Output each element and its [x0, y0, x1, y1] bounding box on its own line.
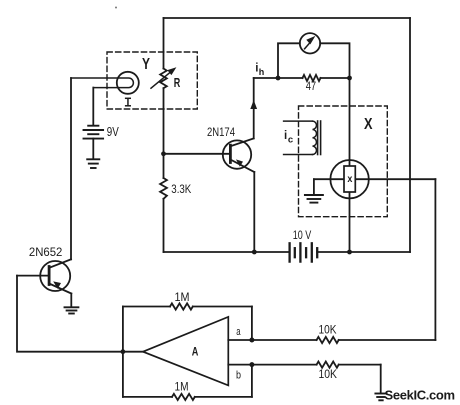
box X (dashed): [299, 106, 388, 217]
battery 10V: [290, 243, 318, 261]
svg-text:X: X: [364, 116, 373, 133]
wire feedback bottom with resistor 1M: [123, 396, 172, 398]
wire emitter down: [253, 172, 255, 252]
wire right outer: [409, 18, 411, 252]
wire 9V to ground: [92, 139, 94, 159]
node emitter-bottom: [252, 250, 257, 255]
wire emitter to ground: [70, 294, 72, 307]
svg-text:c: c: [288, 134, 293, 145]
inductor coil: [313, 121, 317, 154]
resistor R (variable): [160, 69, 167, 89]
wire lamp to 2N652 collector (long left vertical): [70, 78, 72, 259]
ground (b): [375, 394, 386, 401]
wire bottom right vertical to b: [251, 365, 253, 397]
speck: [115, 7, 117, 9]
svg-text:i: i: [284, 130, 287, 142]
svg-text:SeekIC.com: SeekIC.com: [385, 388, 455, 403]
wire base vertical to op-amp input: [17, 276, 143, 352]
svg-text:10 V: 10 V: [293, 228, 312, 242]
svg-text:2N652: 2N652: [29, 245, 63, 259]
x-device circle: [330, 160, 368, 198]
x-device right lead: [355, 178, 435, 180]
svg-text:1M: 1M: [175, 290, 190, 304]
op-amp feedback left vertical: [122, 307, 124, 397]
wire bottom right segment: [317, 251, 410, 253]
svg-text:Y: Y: [142, 56, 151, 73]
box Y (dashed): [107, 52, 197, 109]
svg-text:b: b: [236, 369, 241, 381]
wire bottom left segment: [164, 251, 290, 253]
battery 9V: [84, 126, 104, 139]
wire meter branch left: [278, 43, 300, 78]
node base junction: [161, 151, 166, 156]
node a: [249, 338, 254, 343]
wire left branch upper (top to R): [163, 18, 165, 69]
label I: [125, 98, 131, 106]
svg-text:10K: 10K: [319, 322, 337, 336]
transistor Q2 2N652: [40, 261, 70, 291]
variable-resistor arrow (R): [151, 71, 172, 88]
meter M1: [300, 33, 320, 53]
wire R to base junction: [163, 88, 165, 178]
svg-text:10K: 10K: [319, 367, 338, 381]
wire top right vertical to a: [251, 307, 253, 341]
wire vertical through x-device lower: [349, 192, 351, 252]
node x-bottom junction: [347, 250, 352, 255]
x-device rect: [344, 166, 355, 192]
resistor 47: [303, 75, 321, 81]
ground (2N652): [65, 307, 79, 313]
svg-text:47: 47: [306, 81, 316, 93]
svg-text:9V: 9V: [107, 125, 120, 139]
wire meter branch right: [320, 43, 349, 78]
x-device left lead: [314, 178, 344, 180]
wire feedback top with resistor 1M: [123, 306, 170, 308]
svg-text:R: R: [174, 75, 181, 90]
svg-text:2N174: 2N174: [207, 125, 235, 139]
resistor 1M top: [170, 303, 193, 309]
node 47 right junction: [347, 76, 352, 81]
op-amp A triangle: [143, 317, 228, 386]
lamp I: [117, 72, 139, 94]
inductor core: [317, 121, 319, 155]
ground (9V): [87, 159, 99, 168]
ground (X box): [305, 195, 323, 203]
node ih junction: [276, 76, 281, 81]
transistor Q1 2N174: [223, 140, 251, 168]
arrowhead i_h: [250, 100, 257, 109]
wire base 2N174: [164, 153, 231, 155]
wire 3.3K to bottom: [163, 199, 165, 252]
wire vertical through x-device upper: [349, 78, 351, 166]
wire b to ground: [380, 365, 382, 393]
wire a output: [228, 339, 316, 341]
svg-text:x: x: [347, 174, 352, 185]
wire collector up (i_h): [253, 78, 255, 138]
resistor 3.3K: [160, 178, 167, 199]
node input junction: [121, 349, 126, 354]
svg-text:A: A: [192, 344, 199, 358]
wire top outer: [164, 17, 411, 19]
resistor 1M bottom: [172, 394, 195, 400]
wire base 2N652: [17, 275, 49, 277]
wire b output: [228, 364, 316, 366]
node b: [249, 362, 254, 367]
svg-text:a: a: [236, 326, 241, 338]
wire lamp inner lead down to 9V: [92, 88, 94, 126]
wire ih horizontal with resistor 47: [254, 77, 303, 79]
inductor (transformer) leads: [284, 120, 313, 122]
resistor 10K bottom: [317, 362, 339, 368]
resistor 10K top: [317, 337, 339, 343]
wire x-device output down right side: [434, 179, 436, 340]
svg-text:3.3K: 3.3K: [171, 182, 191, 196]
wire to ground (X box): [313, 179, 315, 194]
svg-text:h: h: [259, 67, 265, 77]
svg-text:1M: 1M: [175, 380, 189, 394]
